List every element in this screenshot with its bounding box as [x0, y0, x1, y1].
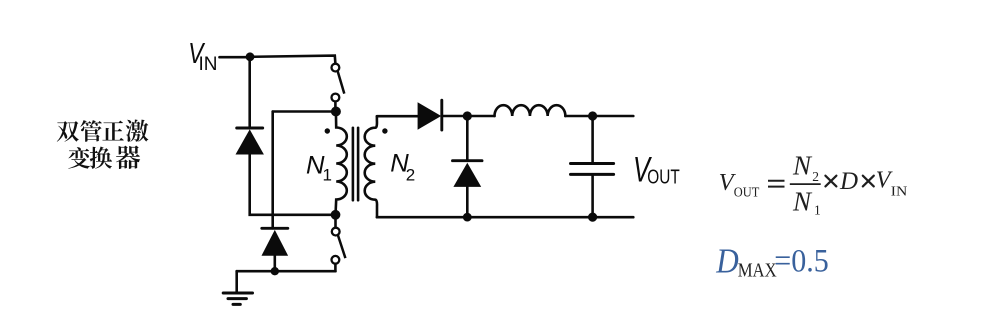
wire: left drop from VIN node to clamp diode D1 — [248, 57, 251, 128]
wire: input top rail to S1 — [250, 56, 335, 64]
phase dot: secondary — [382, 128, 387, 133]
wire: ground rail — [237, 270, 336, 273]
svg-text:IN: IN — [199, 54, 218, 75]
junction dot: ground rail / D2 anode — [271, 267, 279, 275]
svg-text:N: N — [792, 187, 813, 217]
wire: S2 lower contact to ground rail — [334, 264, 337, 271]
clamp diode D2 (lower left) — [262, 228, 289, 255]
switch S2 (bottom) — [332, 228, 346, 264]
wire: VIN lead — [220, 56, 251, 59]
svg-text:OUT: OUT — [647, 166, 680, 188]
label VOUT — [633, 150, 680, 189]
label N1 (primary turns) — [306, 152, 332, 185]
svg-text:D: D — [715, 243, 738, 281]
junction dot: node A (primary top) — [331, 107, 341, 117]
freewheeling diode D4 — [453, 161, 483, 187]
svg-text:OUT: OUT — [734, 184, 760, 199]
svg-text:MAX: MAX — [738, 260, 777, 282]
transformer T1 primary winding N1 — [336, 112, 347, 215]
junction dot: capacitor bottom — [588, 213, 597, 222]
label VIN — [188, 38, 217, 75]
junction dot: node B (primary bottom) — [331, 210, 341, 220]
wire: D4 anode stub to bottom rail — [466, 187, 469, 217]
svg-text:D: D — [839, 168, 858, 195]
formula: VOUT = N2/N1 x D x VIN — [719, 151, 908, 218]
wire: secondary top lead to rectifier D3 — [377, 115, 418, 118]
label N2 (secondary turns) — [390, 149, 415, 184]
wire: D2 anode to ground rail — [273, 256, 276, 272]
svg-text:N: N — [792, 151, 813, 181]
transformer T1 core line left — [352, 128, 355, 200]
wire: ground stub — [235, 271, 238, 292]
wire: top rail from L1 to output — [565, 115, 633, 118]
svg-text:2: 2 — [812, 169, 819, 184]
caption text: 变换器 (converter) line 2 — [68, 147, 90, 169]
junction dot: freewheel node bottom — [463, 213, 472, 222]
wire: clamp branch vertical (crossover, no junction) — [271, 112, 274, 229]
rectifier diode D3 (series, secondary top) — [418, 100, 442, 130]
transformer T1 core line right — [357, 128, 360, 200]
svg-text:1: 1 — [814, 202, 821, 217]
capacitor C1 top stub — [591, 116, 594, 163]
wire: freewheel diode D4 cathode stub — [466, 116, 469, 161]
capacitor C1 plates — [571, 164, 614, 175]
clamp diode D1 (upper left) — [236, 128, 264, 155]
junction dot: freewheel node top — [463, 111, 472, 120]
wire: S1 lower contact to node A — [334, 101, 337, 111]
svg-text:=0.5: =0.5 — [774, 243, 829, 279]
formula: DMAX = 0.5 (blue) — [715, 243, 829, 282]
capacitor C1 bottom stub — [591, 175, 594, 218]
ground symbol — [223, 293, 252, 304]
junction dot: capacitor top — [588, 111, 597, 120]
transformer T1 secondary winding N2 — [365, 116, 377, 217]
switch S1 (top) — [332, 64, 345, 102]
junction dot: VIN node — [246, 52, 255, 61]
svg-text:1: 1 — [323, 165, 332, 184]
wire: output bottom rail — [377, 216, 633, 219]
svg-text:IN: IN — [891, 184, 908, 199]
caption text: 双管正激 (two-transistor forward) line 1 — [57, 121, 79, 142]
wire: D1 anode down and right to node B — [250, 154, 331, 215]
svg-text:2: 2 — [406, 165, 415, 184]
wire: D3 cathode to inductor, through freewheel node — [442, 115, 495, 118]
wire: node A stub left to clamp branch — [273, 110, 331, 113]
inductor L1 — [495, 105, 566, 116]
wire: S2 upper contact stub from node B — [334, 215, 337, 228]
phase dot: primary — [325, 128, 330, 133]
